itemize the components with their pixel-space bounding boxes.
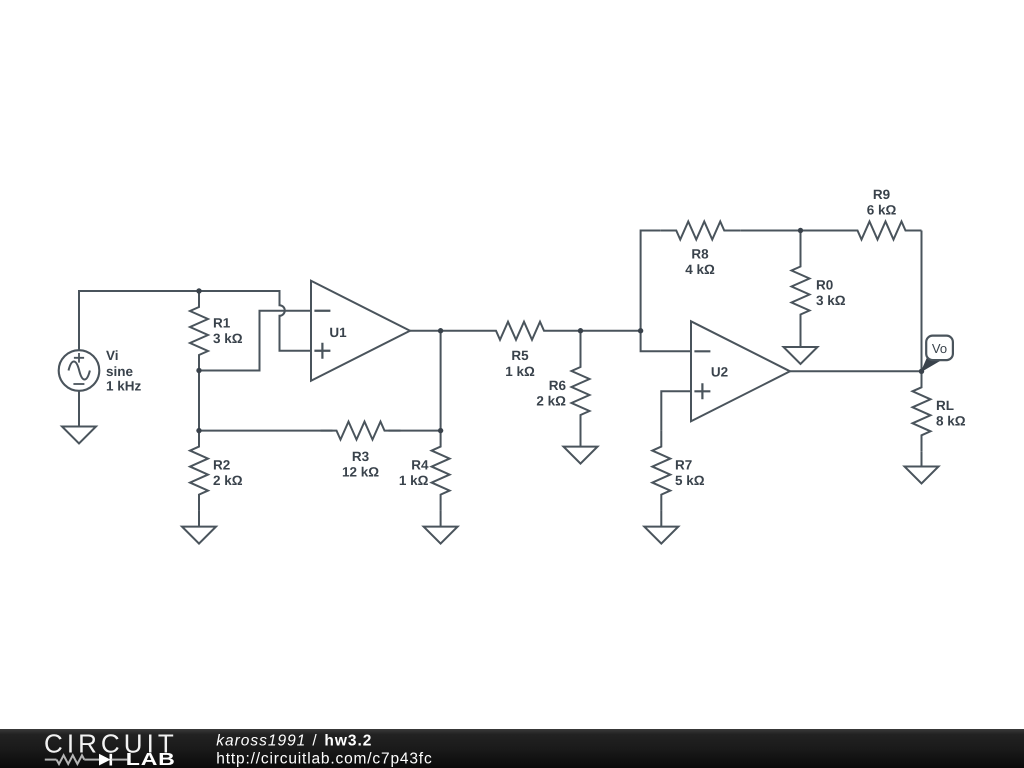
svg-text:LAB: LAB <box>126 750 176 768</box>
logo mini-schematic wire right <box>112 759 128 761</box>
wire R8 to R0 node <box>740 230 800 232</box>
svg-text:R1: R1 <box>213 315 231 330</box>
wire R0 top <box>800 231 802 251</box>
label RL 8 kOhm <box>936 398 966 429</box>
svg-text:Vo: Vo <box>932 341 947 356</box>
resistor R7 <box>652 431 670 511</box>
label R2 2 kOhm <box>213 457 243 488</box>
resistor R6 <box>572 351 590 431</box>
footer url <box>216 751 432 768</box>
svg-text:1 kΩ: 1 kΩ <box>505 364 535 379</box>
wire from Vi to U1 non-inverting input (with hop) <box>79 291 311 351</box>
wire R2 to ground <box>198 511 200 527</box>
label R3 12 kOhm <box>342 449 379 480</box>
svg-text:2 kΩ: 2 kΩ <box>536 393 566 408</box>
wire R1 bottom node to R2/R3 node <box>198 371 200 431</box>
svg-text:Vi: Vi <box>106 348 119 363</box>
label R1 3 kOhm <box>213 315 243 346</box>
svg-text:2 kΩ: 2 kΩ <box>213 473 243 488</box>
ground below R2 <box>182 527 216 544</box>
wire R4 column to U1 output node <box>440 331 442 431</box>
svg-text:8 kΩ: 8 kΩ <box>936 413 966 428</box>
resistor R4 <box>432 431 450 511</box>
svg-text:RL: RL <box>936 398 954 413</box>
node Vo output <box>919 369 924 374</box>
svg-text:R8: R8 <box>691 246 709 261</box>
wire U1 output to R6 node <box>410 330 581 332</box>
svg-text:1 kΩ: 1 kΩ <box>399 473 429 488</box>
svg-text:U2: U2 <box>711 364 728 379</box>
svg-text:http://circuitlab.com/c7p43fc: http://circuitlab.com/c7p43fc <box>216 751 432 768</box>
label R0 3 kOhm <box>816 277 846 308</box>
wire U2 output to Vo node <box>790 370 922 372</box>
svg-text:4 kΩ: 4 kΩ <box>685 262 715 277</box>
footer bar <box>0 729 1024 768</box>
wire RL to ground <box>921 451 923 466</box>
svg-text:R0: R0 <box>816 277 833 292</box>
resistor RL <box>913 371 931 451</box>
svg-text:R3: R3 <box>352 449 370 464</box>
wire R0 to ground <box>800 331 802 348</box>
resistor R0 <box>792 251 810 331</box>
svg-text:R6: R6 <box>549 378 567 393</box>
resistor R9 <box>842 222 922 240</box>
svg-text:R2: R2 <box>213 457 230 472</box>
node U1 output <box>438 328 443 333</box>
logo mini-schematic wire left <box>45 759 57 761</box>
output flag Vo <box>922 336 953 372</box>
op-amp U2 <box>691 321 790 421</box>
wire R9 to output rail <box>921 231 923 372</box>
svg-text:R9: R9 <box>873 187 890 202</box>
svg-text:1 kHz: 1 kHz <box>106 379 142 394</box>
svg-text:R5: R5 <box>511 348 529 363</box>
ground below R6 <box>564 447 598 464</box>
op-amp U1 <box>311 281 410 381</box>
svg-text:12 kΩ: 12 kΩ <box>342 464 379 479</box>
svg-text:5 kΩ: 5 kΩ <box>675 473 705 488</box>
resistor R3 <box>321 422 401 440</box>
wire U2 non-inverting input to R7 <box>661 391 691 430</box>
footer username and project title <box>216 732 371 749</box>
node R1 bottom <box>196 368 201 373</box>
wire R0 node to R9 <box>801 230 842 232</box>
resistor R8 <box>660 222 740 240</box>
CircuitLab logo wordmark CIRCUIT <box>44 729 178 759</box>
label R6 2 kOhm <box>536 378 566 409</box>
CircuitLab logo wordmark LAB <box>126 750 176 768</box>
label R4 1 kOhm <box>399 457 429 488</box>
wire R3 row <box>199 430 441 432</box>
wire R6 top <box>580 331 582 351</box>
node R2/R3 <box>196 428 201 433</box>
svg-text:6 kΩ: 6 kΩ <box>867 202 897 217</box>
resistor R2 <box>190 431 208 511</box>
svg-text:sine: sine <box>106 364 134 379</box>
wire R7 to ground <box>660 511 662 527</box>
wire R6 node to feedback node <box>581 330 641 332</box>
ground below R4 <box>424 527 458 544</box>
label Vi value <box>106 348 142 393</box>
wire Vi to ground <box>78 391 80 427</box>
wire R6 to ground <box>580 431 582 447</box>
ground below R0 <box>784 347 818 364</box>
node Vi/R1 top <box>196 288 201 293</box>
label R7 5 kOhm <box>675 457 705 488</box>
ground below R7 <box>644 527 678 544</box>
node feedback <box>638 328 643 333</box>
resistor R1 <box>190 291 208 371</box>
logo mini-schematic resistor <box>57 755 85 764</box>
wire R4 to ground <box>440 511 442 527</box>
resistor R5 <box>480 322 560 340</box>
label R5 1 kOhm <box>505 348 535 379</box>
logo mini-schematic wire middle <box>84 759 99 761</box>
node R3/R4 <box>438 428 443 433</box>
svg-text:kaross1991 / hw3.2: kaross1991 / hw3.2 <box>216 732 371 749</box>
ground below RL <box>905 467 939 484</box>
wire from R1/R2 node to U1 inverting input <box>199 311 311 371</box>
node R8/R0 <box>798 228 803 233</box>
node R5/R6 <box>578 328 583 333</box>
label R8 4 kOhm <box>685 246 715 277</box>
wire feedback node to U2 inverting input <box>641 331 691 352</box>
logo mini-schematic diode <box>99 754 111 766</box>
voltage source Vi (sine 1 kHz) <box>59 350 100 391</box>
svg-text:3 kΩ: 3 kΩ <box>816 293 846 308</box>
wire feedback node up to R8 <box>641 231 661 331</box>
ground below Vi <box>62 427 96 444</box>
svg-text:R4: R4 <box>411 457 429 472</box>
svg-text:U1: U1 <box>329 325 347 340</box>
svg-text:3 kΩ: 3 kΩ <box>213 331 243 346</box>
svg-text:R7: R7 <box>675 457 692 472</box>
label R9 6 kOhm <box>867 187 897 218</box>
